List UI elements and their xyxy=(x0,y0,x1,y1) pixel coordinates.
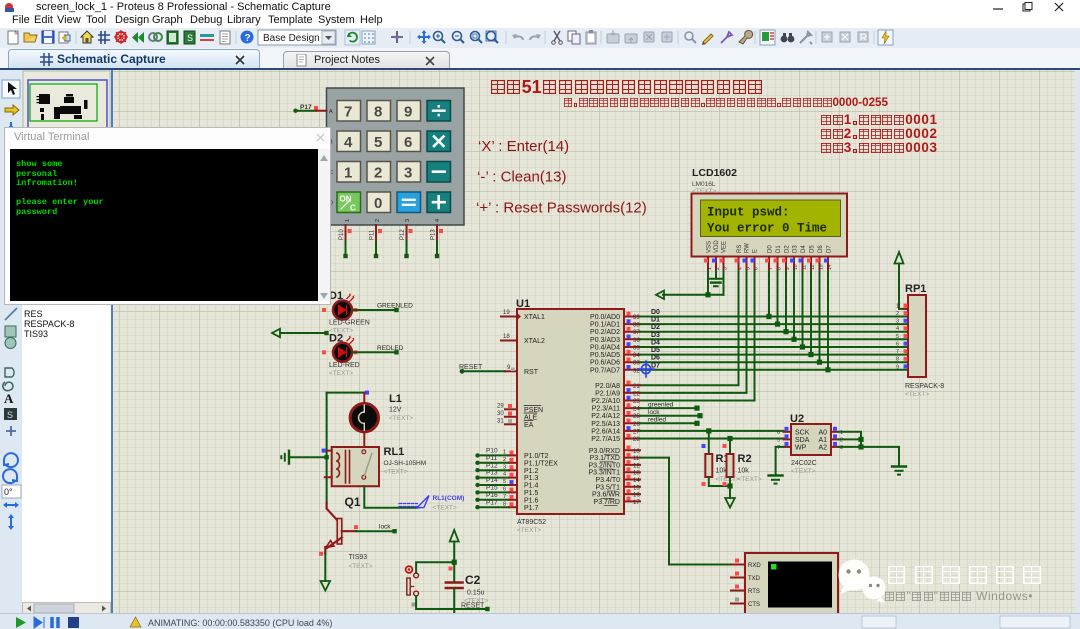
svg-text:EA: EA xyxy=(524,422,534,429)
svg-text:P1.6: P1.6 xyxy=(524,497,539,504)
keypad button 0 xyxy=(367,192,391,213)
svg-text:P3.4/T0: P3.4/T0 xyxy=(595,477,620,484)
U1 right pin stubs 39..32 xyxy=(624,317,640,370)
LCD pin 7 D0 xyxy=(765,257,774,272)
svg-text:P1.2: P1.2 xyxy=(524,468,539,475)
wire LCD D6 drop xyxy=(817,272,822,365)
svg-text:lock: lock xyxy=(648,409,660,416)
binoculars xyxy=(781,33,795,42)
serial pin RTS xyxy=(731,585,745,591)
zooms xyxy=(434,32,446,44)
svg-text:P10: P10 xyxy=(339,229,345,240)
new xyxy=(8,31,18,44)
magnifier edit, pencil, wand, wrench xyxy=(685,32,696,43)
user2 line xyxy=(820,126,938,141)
svg-text:1: 1 xyxy=(896,303,899,309)
wire LCD RS down to U1 P2.0 xyxy=(640,272,739,386)
svg-text:‘X’ : Enter(14): ‘X’ : Enter(14) xyxy=(478,138,569,155)
svg-text:ON: ON xyxy=(340,195,352,204)
svg-text:5: 5 xyxy=(374,134,382,151)
wire relay switch to RL1(COM) xyxy=(364,486,417,508)
cut copy paste xyxy=(552,31,563,44)
wire keypad col2 down xyxy=(374,242,378,259)
junction VSS/power rail xyxy=(705,292,710,297)
svg-text:ANIMATING: 00:00:00.583350 (CP: ANIMATING: 00:00:00.583350 (CPU load 4%) xyxy=(148,618,332,628)
svg-text:VDD: VDD xyxy=(714,240,720,253)
svg-text:TXD: TXD xyxy=(748,576,761,582)
svg-text:RXD: RXD xyxy=(748,563,761,569)
serial pin RXD xyxy=(731,559,745,565)
ground symbol below U2 WP xyxy=(769,476,783,484)
wire LCD D4 drop xyxy=(800,272,805,350)
svg-text:6: 6 xyxy=(754,267,760,270)
svg-text:5: 5 xyxy=(896,334,899,340)
wire P17 to keypad xyxy=(296,110,317,112)
pin 18 XTAL2 xyxy=(501,334,517,341)
U1 P2 pin stubs 21..28 xyxy=(624,385,640,438)
lamp L1 12V xyxy=(350,393,413,447)
keypad button divide xyxy=(427,101,451,122)
svg-text:R2: R2 xyxy=(738,453,752,465)
svg-text:4: 4 xyxy=(344,134,353,151)
pin squares at resistor bottoms xyxy=(702,482,727,486)
svg-text:P2.0/A8: P2.0/A8 xyxy=(595,383,620,390)
P1.3 pin 4 with node P13 xyxy=(475,470,517,480)
svg-text:GREENLED: GREENLED xyxy=(377,303,413,310)
svg-text:0: 0 xyxy=(374,195,382,212)
pan xyxy=(417,30,431,44)
svg-text:Q1: Q1 xyxy=(345,495,361,509)
svg-text:5: 5 xyxy=(777,438,780,444)
microcontroller U1 AT89C52 body xyxy=(516,298,624,534)
serial virtual terminal component xyxy=(745,553,838,614)
keypad column pin 3 (P12) xyxy=(400,225,413,242)
svg-text:RL1(COM): RL1(COM) xyxy=(433,495,465,502)
svg-text:13: 13 xyxy=(819,264,825,270)
svg-text:D1: D1 xyxy=(651,317,660,324)
svg-text:12V: 12V xyxy=(389,407,402,414)
keypad button equals xyxy=(397,192,421,213)
svg-text:<TEXT>: <TEXT> xyxy=(905,391,929,398)
svg-text:‘+’ : Reset Passwords(12): ‘+’ : Reset Passwords(12) xyxy=(476,200,647,217)
pin stub keypad row A xyxy=(316,110,327,112)
wire U2 WP to ground xyxy=(776,447,784,475)
svg-text:2: 2 xyxy=(896,311,899,317)
svg-text:P3.7/RD: P3.7/RD xyxy=(594,499,620,506)
U2 pin 6 SCK xyxy=(777,427,791,436)
svg-text:23: 23 xyxy=(633,399,640,405)
relay RL1 OJ-SH-105HM xyxy=(322,446,427,486)
svg-text:RW: RW xyxy=(745,243,751,253)
svg-text:D5: D5 xyxy=(651,347,660,354)
svg-text:10: 10 xyxy=(793,264,799,270)
svg-text:P0.2/AD2: P0.2/AD2 xyxy=(590,329,620,336)
P1.5 pin 6 with node P15 xyxy=(475,485,517,495)
svg-text:6: 6 xyxy=(404,134,412,151)
chinese note line xyxy=(563,96,888,109)
svg-text:P16: P16 xyxy=(486,492,498,499)
svg-text:VEE: VEE xyxy=(722,241,728,253)
svg-text:11: 11 xyxy=(802,265,808,270)
wire D7 bus xyxy=(640,369,908,371)
terminal RL1(COM) xyxy=(399,495,464,512)
junction R1/pin27 wire xyxy=(706,428,711,433)
LED D2 LED-RED xyxy=(322,333,360,377)
keypad button 5 xyxy=(367,131,391,152)
svg-text:21: 21 xyxy=(633,384,640,390)
svg-text:19: 19 xyxy=(503,310,510,316)
svg-text:7: 7 xyxy=(344,104,352,121)
svg-text:P3.5/T1: P3.5/T1 xyxy=(595,484,620,491)
U1 P3 pin squares and numbers xyxy=(627,446,641,506)
user1 line xyxy=(820,112,938,127)
svg-text:P0.3/AD3: P0.3/AD3 xyxy=(590,337,620,344)
help xyxy=(241,31,254,45)
wire LCD VSS down to power rail xyxy=(707,272,709,295)
serial pin TXD xyxy=(731,572,745,578)
LCD pin 14 D7 xyxy=(824,257,833,272)
svg-text:P2.4/A12: P2.4/A12 xyxy=(591,413,620,420)
svg-text:16: 16 xyxy=(633,493,640,499)
svg-text:RST: RST xyxy=(524,369,539,376)
node RESET wire to RST xyxy=(459,364,505,374)
svg-text:P0.5/AD5: P0.5/AD5 xyxy=(590,352,620,359)
svg-text:2: 2 xyxy=(503,457,506,463)
wire D0 bus U1 to RP1 xyxy=(640,316,908,318)
svg-text:LCD1602: LCD1602 xyxy=(692,167,737,179)
svg-text:VSS: VSS xyxy=(707,241,713,253)
svg-text:P1.7: P1.7 xyxy=(524,505,539,512)
svg-text:D4: D4 xyxy=(801,245,807,253)
svg-text:RP1: RP1 xyxy=(905,283,926,295)
green arrows xyxy=(132,32,144,43)
capacitor C2 0.15u xyxy=(446,562,489,613)
chinese title 基于51单片机的电子密码锁设计与实现 xyxy=(490,77,763,98)
undo redo xyxy=(512,34,523,40)
svg-text:Input pswd:: Input pswd: xyxy=(707,206,790,220)
resistor R2 10k xyxy=(723,444,762,483)
U2 pin 2 A1 xyxy=(831,434,843,443)
svg-text:0°: 0° xyxy=(4,487,13,497)
component mode green xyxy=(760,30,775,45)
U1 P3 pin stubs 10..17 xyxy=(624,450,640,501)
power terminal VCC above RP1 xyxy=(895,252,904,309)
green book xyxy=(167,31,178,44)
svg-text:D4: D4 xyxy=(651,340,660,347)
LED D1 LED-GREEN xyxy=(322,290,370,335)
grid icon xyxy=(362,31,375,44)
svg-text:P1.1/T2EX: P1.1/T2EX xyxy=(524,460,558,467)
power terminal arrow above C2 xyxy=(450,530,459,562)
junction R2/pin28 wire xyxy=(727,436,732,441)
svg-text:P15: P15 xyxy=(486,485,498,492)
red gear xyxy=(114,30,128,44)
wire keypad col1 down xyxy=(343,242,347,259)
svg-text:OJ-SH-105HM: OJ-SH-105HM xyxy=(384,460,427,467)
junction A1 xyxy=(858,437,863,442)
wire pin 28 to U2 SDA xyxy=(640,438,784,440)
svg-text:P2.1/A9: P2.1/A9 xyxy=(595,390,620,397)
svg-text:17: 17 xyxy=(633,500,640,506)
svg-text:2: 2 xyxy=(715,267,721,270)
pin 29 PSEN xyxy=(497,404,517,410)
svg-text:4: 4 xyxy=(435,219,441,222)
svg-text:9: 9 xyxy=(896,364,899,370)
svg-text:Base Design: Base Design xyxy=(263,33,320,44)
svg-text:3: 3 xyxy=(503,464,506,470)
svg-text:P1.3: P1.3 xyxy=(524,475,539,482)
svg-text:<TEXT>: <TEXT> xyxy=(738,476,762,483)
keypad KEYPAD-SMALLCALC body xyxy=(327,88,465,225)
wire keypad col4 down xyxy=(435,242,439,259)
svg-text:<TEXT>: <TEXT> xyxy=(517,527,541,534)
wire power rail horizontal to LCD xyxy=(663,294,724,296)
junction A2 xyxy=(858,444,863,449)
svg-text:P3.3/INT1: P3.3/INT1 xyxy=(588,470,620,477)
svg-text:RS: RS xyxy=(737,245,743,253)
svg-text:8: 8 xyxy=(896,357,899,363)
svg-text:P2.2/A10: P2.2/A10 xyxy=(591,398,620,405)
svg-text:3: 3 xyxy=(723,267,729,270)
lightning xyxy=(878,30,893,45)
keypad button X xyxy=(427,131,451,152)
svg-text:P0.7/AD7: P0.7/AD7 xyxy=(590,367,620,374)
svg-text:LM016L: LM016L xyxy=(692,181,716,188)
wire VCC to RP1 pin 1 xyxy=(899,308,908,310)
U1 P2 pin squares and numbers xyxy=(627,381,641,444)
junction C2 top xyxy=(452,560,457,565)
wire keypad col3 down xyxy=(404,242,408,259)
resistor R1 10k xyxy=(702,444,740,483)
svg-text:P2.6/A14: P2.6/A14 xyxy=(591,428,620,435)
svg-text:D6: D6 xyxy=(818,245,824,253)
refresh xyxy=(345,30,360,45)
wire Q1 base to lock node xyxy=(356,524,397,534)
svg-text:29: 29 xyxy=(497,404,504,410)
svg-text:13: 13 xyxy=(633,471,640,477)
keypad button 3 xyxy=(397,162,421,183)
svg-text:P2.3/A11: P2.3/A11 xyxy=(592,406,620,413)
svg-text:P13: P13 xyxy=(431,229,437,240)
svg-text:P13: P13 xyxy=(486,470,498,477)
svg-text:‘-’ : Clean(13): ‘-’ : Clean(13) xyxy=(477,169,566,186)
svg-text:RTS: RTS xyxy=(748,589,760,595)
save xyxy=(42,31,54,43)
wire LCD D5 drop xyxy=(808,272,813,358)
svg-text:3: 3 xyxy=(404,165,412,182)
svg-text:WP: WP xyxy=(795,445,807,452)
power terminal arrow left (LCD supply) xyxy=(656,291,664,299)
LCD pin 3 VEE xyxy=(720,257,729,272)
svg-text:RL1: RL1 xyxy=(384,446,405,458)
svg-text:A: A xyxy=(329,109,333,115)
LCD1602 LM016L display module xyxy=(692,167,848,257)
P1.1 pin 2 with node P11 xyxy=(475,455,517,465)
svg-text:L1: L1 xyxy=(389,393,402,405)
wire net greenled from pin 24 xyxy=(640,402,700,411)
keypad button 1 xyxy=(337,162,361,183)
svg-text:3: 3 xyxy=(896,319,899,325)
svg-text:D0: D0 xyxy=(651,309,660,316)
svg-text:D0: D0 xyxy=(768,245,774,253)
svg-text:P2.7/A15: P2.7/A15 xyxy=(591,436,620,443)
svg-text:31: 31 xyxy=(497,419,504,425)
svg-text:D3: D3 xyxy=(793,245,799,253)
wire LCD D2 drop xyxy=(783,272,788,335)
doc xyxy=(220,31,230,44)
svg-text:<TEXT>: <TEXT> xyxy=(329,370,353,377)
svg-text:8: 8 xyxy=(777,267,783,270)
transistor Q1 TIS93 xyxy=(319,495,373,570)
svg-text:1: 1 xyxy=(503,450,506,456)
wire L1 top feed xyxy=(327,391,369,395)
svg-text:A0: A0 xyxy=(818,429,827,436)
node P17 terminal at keypad row A xyxy=(293,104,318,113)
svg-text:P12: P12 xyxy=(486,462,498,469)
LCD pin 1 VSS xyxy=(704,257,713,272)
svg-text:P1.5: P1.5 xyxy=(524,490,539,497)
wire LCD RW down to U1 P2.1 xyxy=(640,272,747,393)
svg-text:5: 5 xyxy=(746,267,752,270)
svg-text:S: S xyxy=(187,33,193,43)
svg-text:P0.4/AD4: P0.4/AD4 xyxy=(590,345,620,352)
LCD pin 4 RS xyxy=(735,257,744,272)
svg-text:P14: P14 xyxy=(486,477,498,484)
wire pin 27 to U2 SCK xyxy=(640,430,784,432)
svg-text:6: 6 xyxy=(896,342,899,348)
keypad button 4 xyxy=(337,131,361,152)
wire LCD D0 drop xyxy=(766,272,771,320)
keypad column pin 4 (P13) xyxy=(431,225,444,242)
wire LCD VDD down to ground bracket xyxy=(715,272,717,279)
svg-text:0.15u: 0.15u xyxy=(467,590,485,597)
wire main vertical L1/relay/Q1 xyxy=(326,393,328,503)
wire net lock from pin 25 xyxy=(640,409,703,418)
svg-text:P0.0/AD0: P0.0/AD0 xyxy=(590,314,620,321)
junction R2 bottom xyxy=(727,483,732,488)
svg-text:redled: redled xyxy=(648,417,666,424)
wire R2 top to pin28 wire junction xyxy=(729,439,731,455)
keypad button plus xyxy=(427,192,451,213)
combo xyxy=(258,30,336,45)
ruler xyxy=(200,34,214,41)
svg-text:P3.0/RXD: P3.0/RXD xyxy=(589,448,620,455)
wire D5 bus xyxy=(640,354,908,356)
svg-text:18: 18 xyxy=(503,334,510,340)
wire LCD VEE down to power rail xyxy=(723,272,725,295)
U2 pin 1 A0 xyxy=(831,427,843,436)
svg-text:9: 9 xyxy=(404,104,412,121)
wire D6 bus xyxy=(640,361,908,363)
wire U2 A1 to vertical xyxy=(839,438,862,440)
svg-text:P1.0/T2: P1.0/T2 xyxy=(524,453,549,460)
serial pin CTS xyxy=(731,598,745,604)
svg-text:6: 6 xyxy=(777,430,780,436)
svg-text:LED-GREEN: LED-GREEN xyxy=(329,320,370,327)
svg-text:<TEXT>: <TEXT> xyxy=(433,505,457,512)
U1 P0 pin squares and numbers xyxy=(627,312,641,375)
svg-text:4: 4 xyxy=(738,267,744,270)
P1.2 pin 3 with node P12 xyxy=(475,462,517,472)
cursor crosshair xyxy=(638,361,654,377)
svg-text:C2: C2 xyxy=(465,573,481,587)
LCD pin 12 D5 xyxy=(807,257,816,272)
LCD pin 5 RW xyxy=(743,257,752,272)
LCD pin 8 D1 xyxy=(774,257,783,272)
LCD pin 2 VDD xyxy=(712,257,721,272)
block ops grayed xyxy=(607,30,672,43)
chip # xyxy=(98,31,110,44)
eeprom U2 24C02C body xyxy=(790,413,831,475)
svg-text:LED-RED: LED-RED xyxy=(329,362,360,369)
svg-text:P0.1/AD1: P0.1/AD1 xyxy=(590,322,620,329)
svg-text:?: ? xyxy=(245,33,251,44)
ground arrow terminal below R1 R2 xyxy=(725,498,735,508)
svg-text:9: 9 xyxy=(785,267,791,270)
svg-text:greenled: greenled xyxy=(648,402,674,409)
S doc xyxy=(184,31,195,44)
RP1 pin 1 xyxy=(896,303,908,309)
LCD pin 10 D3 xyxy=(790,257,799,272)
svg-text:P11: P11 xyxy=(486,455,497,462)
U2 pin 7 WP xyxy=(777,442,791,451)
keypad column pin 1 (P10) xyxy=(339,225,352,242)
svg-text:15: 15 xyxy=(633,485,640,491)
svg-text:You error 0 Time: You error 0 Time xyxy=(707,222,827,236)
wire TXD pin 11 to serial terminal RXD xyxy=(640,458,731,565)
keypad column pin 2 (P11) xyxy=(370,225,383,242)
svg-text:P12: P12 xyxy=(400,229,406,240)
ground symbol right of U2 xyxy=(892,467,906,475)
wire D1 bus xyxy=(640,323,908,325)
wire Q1 emitter down xyxy=(324,554,326,582)
wire D4 bus xyxy=(640,346,908,348)
svg-text:8: 8 xyxy=(503,501,506,507)
LCD pin 9 D2 xyxy=(782,257,791,272)
svg-text:A2: A2 xyxy=(818,445,827,452)
wire LCD E down to U1 P2.2 xyxy=(640,272,755,401)
svg-text:RESET: RESET xyxy=(461,603,485,610)
svg-text:P17: P17 xyxy=(486,499,498,506)
svg-text:22: 22 xyxy=(633,391,640,397)
keypad button 9 xyxy=(397,101,421,122)
open xyxy=(24,33,37,42)
svg-text:<TEXT>: <TEXT> xyxy=(791,468,815,475)
svg-text:4: 4 xyxy=(503,472,506,478)
svg-text:RESPACK-8: RESPACK-8 xyxy=(905,383,944,390)
LCD pin 13 D6 xyxy=(816,257,825,272)
svg-text:2: 2 xyxy=(375,219,381,222)
svg-text:P3.1/TXD: P3.1/TXD xyxy=(590,455,620,462)
P1.4 pin 5 with node P14 xyxy=(475,477,517,487)
svg-text:P3.2/INT0: P3.2/INT0 xyxy=(588,462,620,469)
svg-text:2: 2 xyxy=(374,165,382,182)
svg-text:8: 8 xyxy=(374,104,382,121)
svg-text:C: C xyxy=(350,204,356,213)
svg-text:P0.6/AD6: P0.6/AD6 xyxy=(590,360,620,367)
svg-text:<TEXT>: <TEXT> xyxy=(384,469,408,476)
svg-text:30: 30 xyxy=(497,411,504,417)
svg-text:P3.6/WR: P3.6/WR xyxy=(592,492,620,499)
wire ground to relay vertical xyxy=(289,455,329,459)
user3 line xyxy=(820,140,938,155)
wire ground bracket horizontal xyxy=(708,278,724,280)
wire R1 bottom to R2 bottom xyxy=(709,477,730,498)
pin 19 XTAL1 xyxy=(501,310,521,320)
svg-text:XTAL2: XTAL2 xyxy=(524,338,545,345)
U2 pin 3 A2 xyxy=(831,442,843,451)
P1.7 pin 8 with node P17 xyxy=(475,499,517,509)
